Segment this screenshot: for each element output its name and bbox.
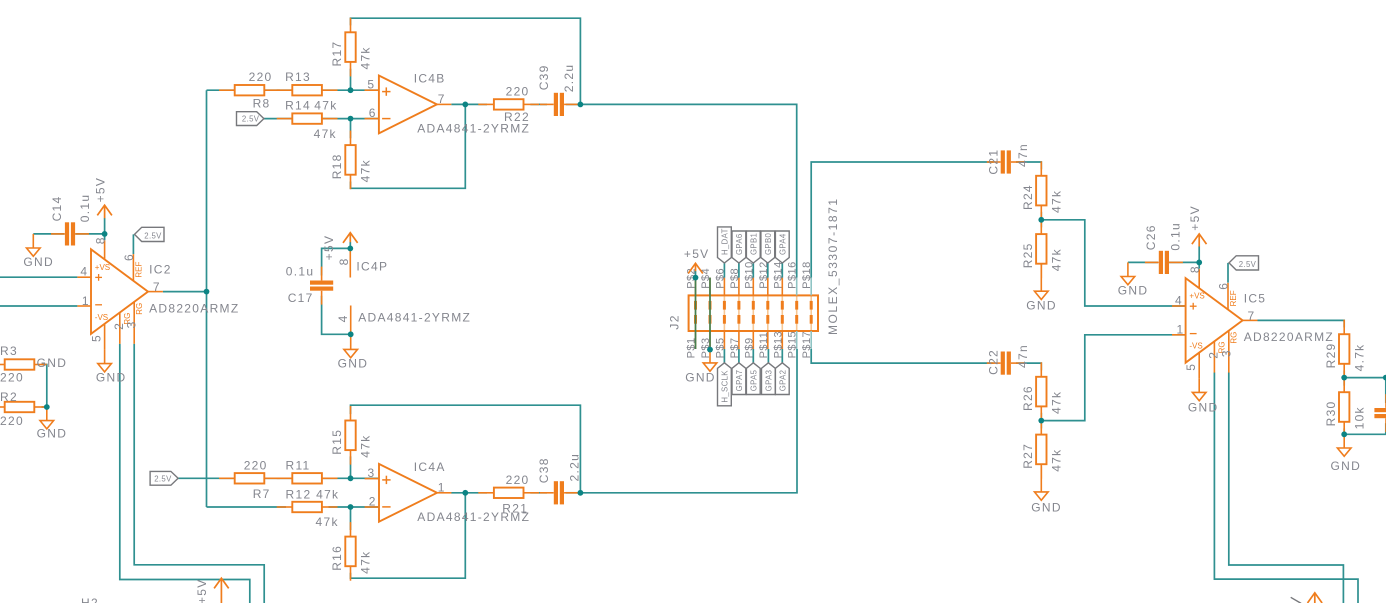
svg-text:C21: C21	[986, 149, 1000, 175]
svg-text:47k: 47k	[1050, 391, 1064, 414]
wire pin8 node into IC2	[104, 234, 106, 240]
svg-text:P$6: P$6	[714, 268, 726, 289]
ground at IC2 -VS	[96, 349, 127, 384]
svg-text:P$9: P$9	[743, 337, 755, 358]
junction IC4A output node	[462, 490, 468, 496]
svg-text:2.5V: 2.5V	[144, 231, 162, 240]
net flag GPA2	[775, 363, 789, 395]
svg-text:+5V: +5V	[195, 578, 209, 603]
svg-text:R15: R15	[330, 429, 344, 455]
wire R30 to output node	[1343, 428, 1345, 434]
resistor R7 220	[219, 459, 280, 501]
wire R22 to C39	[530, 103, 547, 105]
resistor R30 10k	[1324, 378, 1367, 437]
wire IC5 pin 2 to bottom edge	[1214, 373, 1358, 603]
svg-text:+VS: +VS	[1189, 292, 1204, 301]
net flag GPA4	[775, 231, 789, 263]
svg-text:IC4A: IC4A	[414, 460, 446, 474]
svg-text:GND: GND	[23, 255, 54, 269]
svg-text:GND: GND	[1026, 299, 1057, 313]
svg-text:47k: 47k	[314, 127, 337, 141]
svg-text:GPA4: GPA4	[779, 233, 788, 255]
wire IC4B inverting input row (pin 6)	[264, 118, 379, 120]
svg-text:5: 5	[1184, 363, 1198, 371]
svg-text:2: 2	[369, 494, 377, 508]
wire H_SCLK flag to P$5	[723, 349, 725, 363]
junction C38 output node	[578, 490, 584, 496]
junction edge cap top node	[1383, 375, 1386, 381]
svg-text:7: 7	[1248, 309, 1256, 323]
svg-text:220: 220	[506, 85, 530, 99]
ground at C26	[1118, 262, 1149, 297]
net flag GPB0	[761, 231, 775, 263]
svg-text:R18: R18	[330, 153, 344, 179]
svg-text:4: 4	[80, 265, 88, 279]
capacitor C22 47n	[986, 344, 1030, 375]
wire H_DAT flag to P$6	[723, 263, 725, 278]
svg-text:1: 1	[438, 481, 446, 495]
svg-text:C38: C38	[537, 457, 551, 483]
junction IC4B output node	[462, 102, 468, 108]
svg-text:7: 7	[153, 280, 161, 294]
wire P$18 to C21	[811, 162, 993, 278]
resistor R26 47k	[1021, 362, 1064, 421]
resistor R17 47k	[330, 18, 373, 77]
svg-text:+5V: +5V	[1188, 205, 1202, 231]
wire C26 to IC5 +VS node	[1169, 261, 1199, 263]
svg-text:220: 220	[244, 459, 268, 473]
svg-text:2.2u: 2.2u	[562, 64, 576, 93]
wire R18 bottom feedback to output node	[351, 104, 466, 188]
capacitor C38 2.2u	[537, 453, 582, 504]
svg-text:H_SCLK: H_SCLK	[721, 370, 730, 403]
supply flag 2.5V at IC5 REF	[1229, 256, 1259, 270]
svg-text:+5V: +5V	[322, 235, 336, 261]
svg-text:GND: GND	[1188, 400, 1219, 414]
flag fragment at bottom right edge	[1291, 597, 1301, 603]
svg-text:6: 6	[369, 106, 377, 120]
svg-text:GND: GND	[1331, 459, 1362, 473]
wire C22 to R26	[1016, 363, 1041, 370]
svg-text:47k: 47k	[1050, 190, 1064, 213]
wire C39 to output node	[566, 103, 580, 105]
junction C39 output node	[578, 102, 584, 108]
wire C14 to ground corner	[33, 233, 64, 235]
wire C21 to R24	[1016, 162, 1041, 169]
resistor R13 47k	[277, 70, 338, 112]
junction IC2 output node	[204, 289, 210, 295]
wire GPA4 flag to P$14	[781, 263, 783, 278]
junction R26/R27 node	[1038, 418, 1044, 424]
wire GPB1 flag to P$10	[752, 263, 754, 278]
instrumentation amplifier IC5 AD8220ARMZ	[1172, 265, 1334, 378]
connector J2 MOLEX_53307-1871	[668, 197, 840, 358]
net flag GPA7	[732, 363, 746, 395]
resistor R16 47k	[330, 522, 373, 581]
wire R3 to GND net label and R2 node	[42, 365, 47, 408]
svg-text:1: 1	[1177, 323, 1185, 337]
supply flag 2.5V at R7	[150, 471, 178, 485]
junction R24/R25 node	[1038, 217, 1044, 223]
junction +5V at J2	[693, 275, 699, 281]
power +5V at bottom left (H2 supply)	[195, 578, 229, 603]
svg-text:P$8: P$8	[729, 268, 741, 289]
resistor R12 47k	[277, 488, 339, 529]
svg-text:5: 5	[89, 334, 103, 342]
svg-text:R13: R13	[285, 70, 311, 84]
svg-text:4: 4	[1175, 294, 1183, 308]
svg-text:47k: 47k	[359, 159, 373, 182]
svg-text:P$12: P$12	[758, 261, 770, 289]
resistor R15 47k	[330, 406, 373, 465]
svg-text:R7: R7	[253, 487, 271, 501]
wire R15 bottom to pin3 node	[350, 456, 352, 478]
net flag GPA6	[732, 231, 746, 263]
svg-text:4: 4	[336, 314, 350, 322]
ground at R30	[1331, 434, 1362, 473]
junction R30 bottom node	[1341, 431, 1347, 437]
svg-text:220: 220	[0, 414, 24, 428]
svg-text:5: 5	[367, 77, 375, 91]
capacitor C39 2.2u	[537, 64, 578, 116]
svg-text:R17: R17	[330, 41, 344, 67]
wire IC2 output pin to node	[163, 291, 207, 293]
svg-text:ADA4841-2YRMZ: ADA4841-2YRMZ	[417, 510, 530, 524]
wire pin8 node into IC5	[1198, 262, 1200, 268]
svg-text:6: 6	[1217, 282, 1231, 290]
wire R16 bottom feedback to output node	[351, 493, 466, 578]
wire C38 output to J2 P$15	[580, 349, 797, 493]
svg-text:GPB0: GPB0	[764, 232, 773, 255]
resistor R14 47k	[277, 99, 338, 141]
resistor R2 220	[0, 390, 47, 428]
wire R30 bottom node to right edge	[1344, 433, 1386, 435]
svg-text:+5V: +5V	[93, 177, 107, 203]
svg-text:R27: R27	[1021, 443, 1035, 469]
svg-text:GND: GND	[685, 371, 716, 385]
svg-text:GND: GND	[1118, 284, 1149, 298]
wire 2.5V flag to IC5 REF pin 6	[1227, 263, 1229, 283]
svg-text:2.5V: 2.5V	[1239, 260, 1257, 269]
svg-text:4.7k: 4.7k	[1352, 344, 1366, 372]
svg-text:ADA4841-2YRMZ: ADA4841-2YRMZ	[417, 122, 530, 136]
wire GPA2 flag to P$13	[781, 349, 783, 363]
svg-text:REF: REF	[1229, 290, 1238, 306]
wire 2.5V flag to IC2 REF pin 6	[132, 234, 134, 254]
svg-text:-VS: -VS	[95, 313, 108, 322]
resistor R27 47k	[1021, 420, 1064, 479]
svg-text:MOLEX_53307-1871: MOLEX_53307-1871	[826, 197, 840, 335]
capacitor C14 0.1u	[50, 194, 92, 246]
svg-text:GPA5: GPA5	[750, 369, 759, 391]
svg-text:P$14: P$14	[772, 261, 784, 289]
svg-text:C26: C26	[1144, 224, 1158, 250]
svg-text:2.2u: 2.2u	[568, 453, 582, 482]
svg-text:GPA3: GPA3	[765, 370, 774, 392]
wire left edge to IC2 pin 4	[0, 276, 77, 278]
svg-text:0.1u: 0.1u	[78, 194, 92, 223]
svg-text:R26: R26	[1021, 385, 1035, 411]
wire R18 top to pin6 node	[350, 119, 352, 139]
wire +5V stem IC5	[1198, 246, 1200, 262]
svg-text:IC5: IC5	[1244, 291, 1267, 305]
svg-text:47k: 47k	[359, 551, 373, 574]
svg-text:R16: R16	[330, 545, 344, 571]
resistor R3 220	[0, 344, 47, 385]
svg-text:8: 8	[94, 236, 108, 244]
power +5V at bottom right	[1308, 593, 1323, 603]
svg-text:47k: 47k	[359, 434, 373, 457]
op-amp power part IC4P ADA4841-2YRMZ	[336, 248, 471, 334]
svg-text:P$18: P$18	[801, 261, 813, 289]
svg-text:R14: R14	[285, 99, 311, 113]
svg-text:3: 3	[125, 320, 139, 328]
resistor R25 47k	[1021, 220, 1064, 279]
wire GPA3 flag to P$11	[767, 349, 769, 363]
svg-text:+5V: +5V	[684, 247, 710, 261]
svg-text:AD8220ARMZ: AD8220ARMZ	[1244, 330, 1334, 344]
junction R29/R30 node	[1341, 375, 1347, 381]
svg-text:6: 6	[122, 253, 136, 261]
svg-text:C22: C22	[986, 349, 1000, 375]
junction IC4B pin6 node	[348, 116, 354, 122]
svg-text:R11: R11	[286, 459, 311, 473]
svg-text:P$15: P$15	[787, 331, 799, 359]
svg-text:47k: 47k	[314, 99, 337, 113]
svg-text:3: 3	[1219, 349, 1233, 357]
svg-text:47k: 47k	[359, 46, 373, 69]
ground at IC4P	[338, 334, 369, 370]
junction IC4B pin5 node	[348, 87, 354, 93]
power +5V at J2	[684, 247, 710, 273]
svg-text:IC4B: IC4B	[414, 71, 446, 85]
wire IC4B noninverting input row (pin 5)	[207, 89, 379, 91]
wire IC2 output node to R12	[207, 506, 287, 508]
wire R26 to divider node	[1040, 413, 1042, 429]
svg-text:GND: GND	[37, 356, 68, 370]
ground at J2	[685, 350, 717, 385]
wire IC2 pin 2 to bottom edge	[120, 344, 250, 603]
svg-text:47k: 47k	[316, 515, 339, 529]
supply flag 2.5V at IC2 REF	[135, 227, 165, 241]
svg-text:R8: R8	[253, 96, 271, 110]
wire C26 to ground corner	[1128, 261, 1158, 263]
svg-text:ADA4841-2YRMZ: ADA4841-2YRMZ	[358, 310, 471, 324]
resistor R29 4.7k	[1324, 320, 1367, 379]
wire GPA5 flag to P$9	[752, 349, 754, 363]
wire C39 output to J2 P$16	[580, 104, 796, 277]
svg-text:0.1u: 0.1u	[286, 264, 315, 278]
capacitor C17 0.1u	[286, 264, 333, 305]
wire IC5 output to R29	[1258, 320, 1345, 327]
svg-text:47k: 47k	[1050, 449, 1064, 472]
wire +5V stem J2	[695, 271, 697, 278]
wire GPA6 flag to P$8	[738, 263, 740, 278]
svg-text:GPA7: GPA7	[735, 370, 744, 392]
wire GPB0 flag to P$12	[767, 263, 769, 278]
wire +5V stem IC4P	[349, 242, 351, 248]
resistor R22 220	[478, 85, 539, 124]
svg-text:47k: 47k	[1050, 248, 1064, 271]
svg-text:2.5V: 2.5V	[154, 474, 172, 483]
svg-text:R30: R30	[1324, 400, 1338, 426]
svg-text:IC4P: IC4P	[356, 260, 388, 274]
wire R24/R25 node to IC5 pin 4	[1041, 220, 1185, 306]
wire R25 to ground	[1040, 263, 1042, 266]
ground at C14	[23, 234, 54, 269]
svg-text:GND: GND	[1031, 501, 1062, 515]
svg-text:H2: H2	[81, 596, 99, 603]
net flag H_DAT	[718, 227, 732, 263]
junction IC2 +VS node	[102, 231, 108, 237]
svg-text:R25: R25	[1021, 242, 1035, 268]
svg-text:AD8220ARMZ: AD8220ARMZ	[149, 301, 239, 315]
svg-text:GPB1: GPB1	[750, 233, 759, 255]
net flag GPB1	[746, 231, 760, 263]
wire R29 to node	[1343, 370, 1345, 377]
wire GND through connector P$4 to P$3	[709, 278, 711, 350]
junction IC4A pin2 node	[348, 504, 354, 510]
capacitor at right edge	[1374, 394, 1386, 432]
svg-text:47n: 47n	[1016, 344, 1030, 368]
wire +5V stem IC2	[104, 218, 106, 234]
ground at R25	[1026, 266, 1057, 313]
svg-text:220: 220	[249, 70, 273, 84]
svg-text:GPA6: GPA6	[735, 233, 744, 255]
svg-text:P$10: P$10	[743, 261, 755, 289]
net flag GPA3	[762, 363, 776, 395]
svg-text:RG: RG	[135, 303, 144, 315]
junction IC4P pin4 node	[348, 331, 354, 337]
svg-text:R3: R3	[0, 344, 18, 358]
svg-text:8: 8	[337, 257, 351, 265]
svg-text:220: 220	[506, 473, 530, 487]
wire IC5 pin 3 to bottom edge	[1229, 373, 1344, 603]
net flag GPA5	[746, 363, 760, 395]
svg-text:1: 1	[82, 294, 90, 308]
svg-text:J2: J2	[668, 314, 682, 329]
wire R17 bottom to pin5 node	[350, 69, 352, 91]
resistor R21 220	[478, 473, 539, 516]
wire 2.5V flag to IC4A noninverting row (pin 3)	[178, 477, 379, 479]
svg-text:-VS: -VS	[1189, 342, 1202, 351]
wire IC4B output to R22	[451, 103, 487, 105]
instrumentation amplifier IC2 AD8220ARMZ	[77, 236, 239, 349]
svg-text:8: 8	[1188, 265, 1202, 273]
wire node to R30	[1343, 378, 1345, 386]
wire left edge to IC2 pin 1	[0, 305, 77, 307]
wire IC2 output vertical to R8 row and R12 row	[206, 90, 208, 507]
wire R21 to C38	[530, 492, 547, 494]
wire R12 to IC4A inverting input (pin 2)	[329, 506, 380, 508]
capacitor C26 0.1u	[1144, 222, 1183, 274]
svg-text:C39: C39	[537, 64, 551, 90]
power +5V at IC5	[1188, 205, 1207, 246]
svg-text:220: 220	[0, 371, 24, 385]
resistor R11 47k	[277, 459, 340, 502]
wire IC4B feedback top (R17 to C39 output)	[351, 18, 581, 104]
wire edge cap to R30 bottom net	[1385, 423, 1386, 434]
svg-text:3: 3	[368, 466, 376, 480]
wire IC4A output to R21	[451, 492, 487, 494]
svg-text:R29: R29	[1324, 342, 1338, 368]
svg-text:RG: RG	[1230, 332, 1239, 344]
supply flag 2.5V at R14	[237, 112, 264, 126]
junction IC4P pin8 node	[347, 246, 353, 252]
svg-text:H_DAT: H_DAT	[721, 228, 730, 255]
wire IC2 pin 3 to bottom edge	[134, 344, 264, 603]
svg-text:P$13: P$13	[772, 331, 784, 359]
svg-text:GPA2: GPA2	[779, 370, 788, 392]
ground at R27	[1031, 467, 1062, 515]
ground at IC5 -VS	[1188, 378, 1219, 414]
junction IC4A pin3 node	[348, 475, 354, 481]
wire C14 to IC2 +VS node	[75, 233, 104, 235]
svg-text:GND: GND	[338, 357, 369, 371]
svg-text:47n: 47n	[1016, 143, 1030, 167]
svg-text:P$7: P$7	[729, 337, 741, 358]
wire +5V through connector to P$1	[695, 278, 697, 349]
svg-text:2.5V: 2.5V	[242, 115, 260, 124]
power +5V at IC4P	[322, 233, 357, 261]
svg-text:GND: GND	[96, 371, 127, 385]
svg-text:R12: R12	[286, 488, 312, 502]
svg-text:P$5: P$5	[714, 337, 726, 358]
capacitor C21 47n	[986, 143, 1030, 175]
svg-text:P$16: P$16	[787, 261, 799, 289]
svg-text:R2: R2	[0, 390, 18, 404]
wire P$17 to C22	[811, 349, 993, 363]
op-amp IC4A ADA4841-2YRMZ	[365, 460, 531, 524]
svg-text:+VS: +VS	[95, 263, 110, 272]
resistor R24 47k	[1021, 161, 1064, 220]
wire C17 bottom to IC4P pin 4	[322, 296, 351, 335]
wire R26/R27 node to IC5 pin 1	[1041, 335, 1185, 421]
svg-text:P$17: P$17	[801, 331, 813, 359]
op-amp IC4B ADA4841-2YRMZ	[365, 71, 531, 135]
resistor R18 47k	[330, 131, 373, 190]
power +5V at IC2	[93, 177, 112, 218]
svg-text:10k: 10k	[1352, 406, 1366, 429]
svg-text:0.1u: 0.1u	[1169, 222, 1183, 251]
svg-text:IC2: IC2	[149, 263, 172, 277]
wire R24 to divider node	[1040, 212, 1042, 228]
junction GND at J2	[707, 347, 713, 353]
wire C17 top to IC4P pin 8	[322, 248, 351, 275]
wire R15 top feedback to C38 output	[351, 405, 581, 493]
wire C38 to output node	[566, 492, 580, 494]
svg-text:47k: 47k	[316, 488, 339, 502]
svg-text:REF: REF	[134, 261, 143, 277]
svg-text:7: 7	[438, 92, 446, 106]
wire R29/R30 node to edge cap	[1344, 378, 1386, 403]
svg-text:C14: C14	[50, 195, 64, 221]
junction R2 ground node	[44, 404, 50, 410]
ground at R2	[37, 407, 68, 441]
svg-text:R24: R24	[1021, 184, 1035, 210]
svg-text:C17: C17	[288, 291, 314, 305]
net flag H_SCLK	[718, 363, 732, 406]
wire R2 to ground node	[42, 406, 47, 408]
junction IC5 +VS node	[1196, 260, 1202, 266]
wire R16 top to pin2 node	[350, 507, 352, 530]
wire GPA7 flag to P$7	[738, 349, 740, 363]
svg-text:P$11: P$11	[758, 332, 770, 359]
svg-text:GND: GND	[37, 427, 68, 441]
resistor R8 220	[219, 70, 280, 110]
